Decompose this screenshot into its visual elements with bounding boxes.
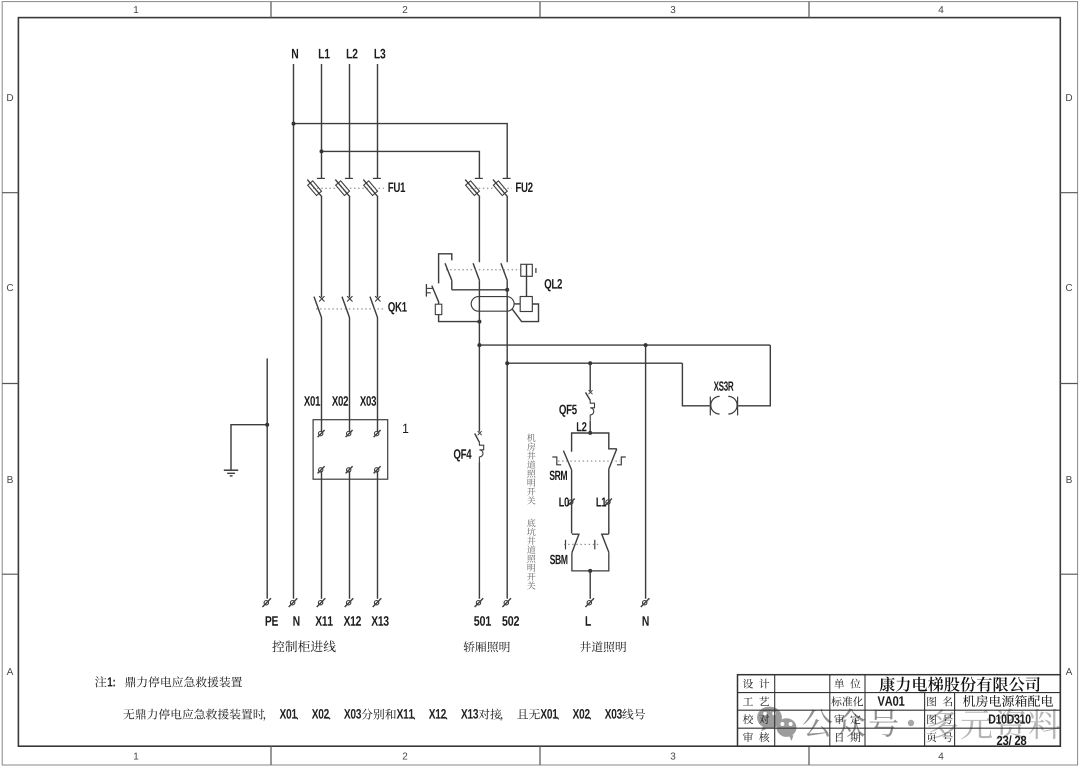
wire L3 mid bbox=[377, 197, 379, 297]
breaker QK1 pole 3 bbox=[370, 296, 381, 317]
label X12 bbox=[344, 616, 361, 626]
connector box terminal top 3 bbox=[374, 430, 381, 437]
wire SRM left down bbox=[571, 470, 573, 534]
wire L1 branch to FU2 bbox=[322, 151, 480, 178]
terminal L bbox=[585, 598, 594, 607]
label SBM bbox=[550, 555, 567, 564]
wire X11 drop bbox=[321, 471, 323, 599]
RCD QL2 linkage bbox=[446, 269, 520, 271]
watermark wechat icon bbox=[757, 707, 796, 741]
wire QL2 pole1 top bbox=[478, 197, 480, 262]
label PE bbox=[266, 616, 278, 625]
wire SBM merge bbox=[572, 552, 609, 571]
fuse FU1 pole 2 bbox=[335, 178, 353, 197]
RCD QL2 pole 2 contact bbox=[501, 263, 507, 280]
title 标准化 bbox=[831, 696, 863, 706]
terminal N bbox=[641, 598, 650, 607]
fuse FU2 pole 2 bbox=[493, 178, 511, 197]
fuse FU1 pole 1 bbox=[307, 178, 325, 197]
wire SRM feed bracket bbox=[572, 433, 617, 452]
switch SBM fixed contact right bbox=[594, 540, 596, 550]
terminal L1 lamp bbox=[605, 499, 612, 506]
connector box terminal top 1 bbox=[318, 430, 325, 437]
wire X13 drop bbox=[377, 471, 379, 599]
wire test switch bracket bbox=[439, 254, 452, 284]
fuse FU1 linkage bbox=[313, 187, 384, 189]
terminal 502 bbox=[502, 598, 511, 607]
label QF5 bbox=[559, 405, 577, 417]
title 审定 bbox=[834, 714, 860, 724]
junction L2 node bbox=[588, 431, 592, 435]
node L1 bbox=[319, 49, 330, 58]
title 图名 bbox=[927, 696, 952, 706]
junction resistor pole1 bbox=[477, 320, 481, 324]
junction rail upper N lamp bbox=[644, 343, 648, 347]
wire toroid to detector bbox=[514, 303, 520, 305]
wire socket left bbox=[682, 363, 709, 406]
terminal L0 bbox=[568, 499, 575, 506]
test button contact bbox=[432, 286, 439, 305]
wire 501 vertical bbox=[478, 280, 480, 431]
title drawing number bbox=[989, 714, 1031, 723]
node N bbox=[292, 49, 298, 58]
label 1 bbox=[403, 424, 408, 433]
label 501 bbox=[474, 616, 491, 626]
title 工艺 bbox=[743, 696, 769, 706]
caption shaft lighting bbox=[580, 641, 626, 652]
switch SBM pole right bbox=[602, 534, 609, 552]
title 校对 bbox=[743, 714, 769, 724]
wire 502 vertical bbox=[506, 280, 508, 599]
title 审核 bbox=[743, 732, 769, 742]
wire L3 upper bbox=[377, 64, 379, 178]
socket XS3R bbox=[710, 396, 737, 415]
ground bbox=[224, 470, 238, 476]
wire N branch to FU2 bbox=[294, 124, 508, 179]
label L1 lamp bbox=[597, 498, 607, 507]
title page number bbox=[997, 735, 1026, 745]
fuse FU2 linkage bbox=[471, 187, 513, 189]
RCD QL2 pole 1 contact bbox=[473, 263, 479, 280]
junction L1 branch bbox=[320, 149, 324, 153]
title drawing name bbox=[963, 695, 1053, 707]
connector box terminal bottom 2 bbox=[346, 466, 353, 473]
switch SBM pole left bbox=[572, 534, 579, 553]
wire QF5 to L2 node bbox=[589, 421, 591, 433]
label XS3R bbox=[714, 381, 734, 391]
wire X01 drop bbox=[321, 318, 323, 432]
RCD QL2 trip element bbox=[521, 264, 536, 276]
junction rail upper pole1 bbox=[477, 343, 481, 347]
RCD QL2 detector bbox=[520, 297, 532, 312]
watermark dot bbox=[908, 720, 914, 726]
wire QF4 lower bbox=[478, 462, 480, 599]
junction SBM output bbox=[588, 569, 592, 573]
connector box terminal top 2 bbox=[346, 430, 353, 437]
wire X02 drop bbox=[349, 318, 351, 432]
label QL2 bbox=[545, 279, 562, 291]
wire L1 mid bbox=[321, 197, 323, 297]
breaker QK1 pole 1 bbox=[314, 296, 325, 317]
wire lamp N drop bbox=[645, 345, 647, 599]
wire QF5 top bbox=[589, 363, 591, 391]
wire N vertical bbox=[293, 64, 295, 599]
label N lamp bbox=[643, 616, 649, 625]
connector box 1 bbox=[313, 420, 388, 480]
title 图号 bbox=[927, 714, 952, 724]
resistor test bbox=[435, 304, 442, 314]
watermark text 1 bbox=[803, 708, 898, 736]
label X13 bbox=[371, 616, 388, 626]
junction N branch bbox=[292, 122, 296, 126]
label L lamp bbox=[586, 616, 591, 625]
junction PE ground bbox=[265, 423, 269, 427]
wire rail lower bbox=[507, 362, 682, 364]
RCD QL2 sensing toroid bbox=[471, 297, 514, 312]
title VA01 bbox=[878, 696, 905, 706]
title 页号 bbox=[927, 732, 953, 742]
title 设计 bbox=[743, 679, 769, 689]
wire PE vertical bbox=[266, 358, 268, 598]
label X01 bbox=[304, 396, 320, 406]
wire L1 upper bbox=[321, 64, 323, 178]
label QK1 bbox=[388, 302, 407, 314]
caption control cabinet bbox=[272, 640, 335, 652]
title block frame bbox=[738, 675, 1061, 747]
wire QL2 trip to sensor bbox=[526, 276, 528, 296]
wire SRM right down bbox=[608, 469, 610, 534]
terminal X13 bbox=[373, 598, 382, 607]
wire QL2 pole2 top bbox=[506, 197, 508, 262]
label L2 node bbox=[577, 422, 587, 431]
wire lamp L drop bbox=[589, 571, 591, 599]
wire X12 drop bbox=[349, 471, 351, 599]
switch SRM pole right bbox=[609, 449, 617, 469]
note SRM vertical bbox=[527, 434, 536, 505]
wire socket right bbox=[738, 345, 770, 406]
fuse FU1 pole 3 bbox=[363, 178, 381, 197]
wire ground branch bbox=[231, 425, 267, 470]
note SBM vertical bbox=[527, 519, 535, 590]
switch SRM fixed contact right bbox=[617, 457, 626, 465]
title company bbox=[879, 677, 1039, 692]
label FU2 bbox=[516, 182, 533, 192]
label N ctrl bbox=[293, 616, 299, 625]
test switch contact bbox=[445, 263, 452, 290]
label X11 bbox=[315, 616, 332, 625]
title 单位 bbox=[834, 679, 860, 689]
caption car lighting bbox=[464, 641, 510, 652]
wire X03 drop bbox=[377, 318, 379, 432]
breaker QF5 bbox=[586, 390, 595, 420]
junction rail lower QF5 bbox=[588, 361, 592, 365]
label X02 bbox=[332, 396, 348, 406]
switch SRM fixed contact left bbox=[552, 457, 561, 465]
breaker QK1 pole 2 bbox=[342, 296, 353, 317]
wire rail upper bbox=[479, 344, 770, 346]
watermark text 2 bbox=[928, 709, 1060, 740]
label FU1 bbox=[388, 183, 405, 193]
label 502 bbox=[502, 616, 519, 626]
junction rail lower pole2 bbox=[505, 361, 509, 365]
connector box terminal bottom 1 bbox=[318, 466, 325, 473]
label X03 bbox=[360, 396, 376, 406]
label L0 bbox=[559, 497, 569, 506]
node L3 bbox=[375, 49, 386, 59]
terminal X12 bbox=[345, 598, 354, 607]
wire detector tail bbox=[512, 304, 539, 322]
label QF4 bbox=[454, 449, 472, 461]
breaker QK1 linkage bbox=[316, 308, 384, 310]
breaker QF4 bbox=[475, 431, 484, 462]
label SRM bbox=[550, 471, 567, 480]
terminal PE bbox=[262, 598, 271, 607]
fuse FU2 pole 1 bbox=[465, 178, 483, 197]
wire L2 upper bbox=[349, 64, 351, 178]
switch SRM pole left bbox=[563, 451, 571, 470]
terminal X11 bbox=[317, 598, 326, 607]
wire resistor to pole1 bbox=[439, 315, 480, 322]
terminal 501 bbox=[475, 598, 484, 607]
test button bbox=[426, 284, 433, 297]
junction test pole2 bbox=[505, 288, 509, 292]
node L2 bbox=[347, 49, 358, 59]
title 日期 bbox=[836, 732, 860, 742]
switch SBM fixed contact left bbox=[565, 540, 567, 550]
switch SBM linkage bbox=[564, 543, 599, 545]
switch SRM linkage bbox=[558, 460, 620, 462]
connector box terminal bottom 3 bbox=[374, 466, 381, 473]
wire test to pole2 bbox=[452, 289, 507, 291]
note 1 line 2 bbox=[123, 709, 645, 721]
wire L2 mid bbox=[349, 197, 351, 297]
terminal N bbox=[289, 598, 298, 607]
note 1 line 1 bbox=[95, 676, 242, 687]
